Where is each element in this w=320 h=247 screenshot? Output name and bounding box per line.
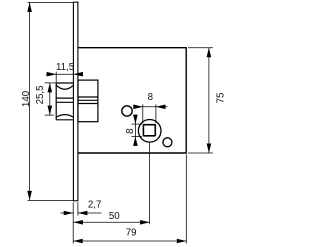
svg-text:50: 50 <box>109 211 120 222</box>
svg-text:8: 8 <box>125 129 136 134</box>
latch housing (inside case) <box>78 80 98 122</box>
lock case outline <box>78 48 186 153</box>
svg-text:25,5: 25,5 <box>35 86 46 105</box>
extension line faceplate left edge down <box>72 202 74 243</box>
dimension 8 horizontal (square width) <box>133 104 167 123</box>
extension line faceplate right edge down <box>77 202 79 215</box>
faceplate (front plate) <box>73 2 78 201</box>
svg-text:2,7: 2,7 <box>88 199 101 210</box>
dimension 50 (backset) <box>73 221 149 223</box>
dimension 8 vertical (square height) <box>132 115 143 143</box>
svg-text:140: 140 <box>21 90 32 107</box>
dimension 2,7 (faceplate thickness) <box>61 212 102 214</box>
dimension 79 (case depth) <box>73 240 186 242</box>
dimension 140 (left) <box>28 3 74 201</box>
latch bolt (left of faceplate) <box>56 83 73 120</box>
spindle square hole <box>143 125 155 136</box>
screw hole bottom-right <box>163 138 172 147</box>
svg-text:75: 75 <box>216 93 227 104</box>
screw hole top-left <box>122 106 132 116</box>
spindle follower circle <box>138 120 161 143</box>
dimension 25,5 (latch height) <box>45 83 57 115</box>
svg-text:11,5: 11,5 <box>56 62 74 73</box>
extension line from spindle centre down <box>149 143 151 225</box>
svg-text:79: 79 <box>126 228 137 239</box>
dimension 75 (case height, right) <box>188 48 213 153</box>
svg-text:8: 8 <box>148 92 153 103</box>
dimension 11,5 (latch projection) <box>46 72 83 83</box>
extension line from case right edge down <box>185 155 187 244</box>
